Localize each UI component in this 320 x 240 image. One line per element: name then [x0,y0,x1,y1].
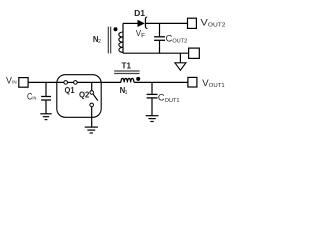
capacitor COUT2 [154,37,165,53]
svg-text:D1: D1 [134,8,145,18]
transformer T1 core [114,71,139,74]
switch Q2 [90,82,98,127]
svg-text:VF: VF [136,29,145,39]
terminal box VOUT2 [188,18,197,28]
wire: secondary return rail [123,52,189,54]
terminal box VOUT1 [188,77,197,87]
node: COUT1 junction [151,82,153,93]
svg-text:VOUT1: VOUT1 [202,78,225,89]
svg-text:T1: T1 [122,61,132,70]
svg-text:CIN: CIN [27,91,37,101]
node: COUT2 junction [159,23,161,36]
ground (COUT1, earth) [146,116,159,122]
switch Q1 [64,81,77,85]
terminal box secondary return [189,48,200,58]
ground (CIN, earth) [40,114,51,120]
ground (secondary, chassis triangle) [175,53,186,70]
svg-text:VOUT2: VOUT2 [201,18,226,29]
wire: N1 to VOUT1 [134,81,188,83]
node: N1 phase dot [136,77,140,81]
wire: VIN rail to regulator [28,81,64,83]
capacitor CIN [41,97,51,114]
svg-text:VIN: VIN [6,76,17,86]
wire: N2 top to D1 [123,22,138,24]
winding N2 coil [122,23,124,53]
wire: D1 to VOUT2 [145,22,187,24]
terminal box VIN [19,78,28,88]
svg-text:Q2: Q2 [79,90,90,100]
node: N2 phase dot [114,27,118,31]
svg-text:N2: N2 [93,35,101,45]
wire: switch node to transformer [77,81,121,83]
svg-text:COUT1: COUT1 [158,93,180,104]
winding N2 (secondary) core [108,27,110,54]
winding N1 (primary) [121,78,134,82]
regulator box U1 [57,75,101,118]
svg-text:COUT2: COUT2 [166,34,188,45]
capacitor COUT1 [147,94,158,115]
node: CIN junction [45,82,47,96]
svg-text:N1: N1 [120,86,128,96]
svg-text:Q1: Q1 [65,85,75,95]
ground (Q2, earth) [85,127,98,133]
diode D1 (Schottky) [138,17,148,28]
